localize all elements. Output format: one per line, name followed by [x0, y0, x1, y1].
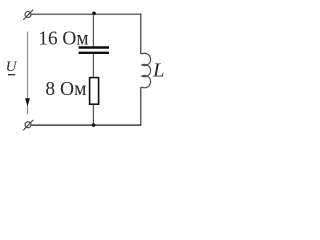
voltage arrow U head	[25, 98, 30, 106]
terminal top-left	[23, 10, 33, 20]
wire bottom	[31, 124, 141, 126]
wire right branch upper	[140, 14, 142, 54]
wire middle branch upper	[92, 14, 94, 47]
svg-text:U: U	[6, 59, 18, 75]
wire right branch lower	[140, 87, 142, 125]
capacitor C top plate	[79, 46, 109, 48]
svg-text:L: L	[152, 60, 165, 82]
node junction dot bottom	[92, 123, 96, 127]
node junction dot top	[92, 12, 96, 16]
svg-text:8 Ом: 8 Ом	[45, 79, 86, 100]
resistor R (8 Ом) body	[90, 78, 99, 105]
wire middle branch between capacitor and resistor	[92, 54, 94, 78]
voltage arrow U shaft	[27, 32, 29, 115]
wire middle branch lower	[92, 105, 94, 125]
label U underline	[8, 74, 15, 76]
wire top	[31, 13, 141, 15]
terminal bottom-left	[23, 120, 33, 130]
inductor L coil	[141, 53, 151, 88]
capacitor C bottom plate	[79, 52, 109, 54]
svg-text:16 Ом: 16 Ом	[38, 29, 88, 50]
